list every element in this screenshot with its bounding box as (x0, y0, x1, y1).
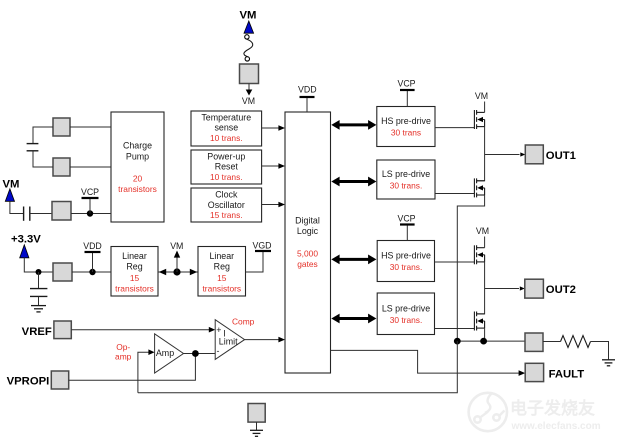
svg-text:FAULT: FAULT (549, 368, 585, 380)
wire pad GND to ground (256, 422, 258, 430)
node amp output junction (192, 350, 199, 357)
node 3.3V junction (36, 269, 42, 275)
wire M1 drain to VM (484, 102, 486, 113)
svg-text:HS pre-drive: HS pre-drive (381, 116, 431, 126)
svg-text:Logic: Logic (297, 226, 319, 236)
arrow into amp input (148, 349, 154, 355)
node VDD junction (89, 269, 95, 275)
wire feedback from sense node (138, 341, 457, 393)
power-up reset block (191, 150, 262, 184)
transistor M2 LS1 (474, 178, 484, 197)
svg-text:Linear: Linear (122, 251, 147, 261)
svg-text:20: 20 (133, 174, 143, 184)
wire OUT2 tee (485, 288, 519, 290)
wire comp output to digital logic (245, 339, 279, 341)
wire capacitor C2 to pad VCP (30, 213, 52, 215)
svg-text:VREF: VREF (22, 326, 52, 338)
HS pre-drive 1 block (377, 107, 435, 147)
svg-text:Temperature: Temperature (201, 112, 251, 122)
pad CP2 (53, 158, 70, 176)
svg-text:-: - (217, 346, 220, 356)
wire HS2 to M3 gate (435, 261, 475, 263)
svg-text:15: 15 (217, 273, 227, 283)
svg-text:www.elecfans.com: www.elecfans.com (511, 421, 601, 432)
transistor M4 LS2 (474, 312, 484, 331)
svg-text:VDD: VDD (298, 84, 317, 94)
wire M3 source column OUT2 (477, 262, 485, 314)
VGD rail symbol (246, 241, 272, 273)
svg-text:HS pre-drive: HS pre-drive (381, 251, 431, 261)
wire OUT1 tee (485, 154, 520, 156)
wire pad CP1 to charge pump (70, 126, 111, 128)
svg-text:15: 15 (130, 273, 140, 283)
watermark text (510, 398, 601, 432)
transistor M1 HS1 (474, 110, 484, 129)
svg-text:Amp: Amp (156, 348, 174, 358)
arrow into FAULT pad (519, 370, 526, 376)
svg-text:VCP: VCP (397, 78, 415, 88)
svg-text:VCP: VCP (81, 187, 99, 197)
svg-text:Oscillator: Oscillator (208, 200, 245, 210)
VM arrow label mid (170, 241, 183, 272)
squiggle wire (244, 39, 253, 56)
svg-text:Digital: Digital (295, 216, 320, 226)
svg-text:VPROPI: VPROPI (7, 375, 50, 387)
VM supply top-center (240, 10, 257, 34)
VDD rail symbol (83, 241, 102, 272)
wire M1 source column OUT1 (477, 127, 485, 181)
wire feedback into amp (138, 352, 149, 393)
pad VREF (54, 321, 71, 339)
pad CP1 (53, 118, 70, 136)
svg-text:Linear: Linear (209, 251, 234, 261)
label Op-amp (115, 342, 132, 362)
clock oscillator block (191, 188, 262, 222)
LS pre-drive 2 block (377, 293, 434, 335)
arrow into digital logic (278, 337, 285, 343)
wire LS2 to M4 gate (435, 328, 475, 330)
connector circle top (245, 35, 249, 39)
linear regulator U3 (198, 247, 246, 297)
VCP rail symbol (81, 187, 99, 214)
watermark logo (469, 393, 507, 431)
temperature sense block (191, 111, 262, 146)
thick arrow DL to HS1 (331, 120, 376, 130)
capacitor C2 (24, 207, 30, 221)
digital logic block (285, 112, 331, 373)
svg-text:gates: gates (297, 259, 318, 269)
svg-text:+: + (216, 325, 221, 335)
svg-text:VGD: VGD (252, 241, 271, 251)
pad VCP (52, 202, 71, 221)
svg-text:VM: VM (3, 179, 20, 191)
wire pad to resistor (543, 341, 561, 343)
comparator U5 (215, 320, 244, 360)
node VM junction mid (173, 268, 180, 275)
svg-text:VM: VM (475, 91, 488, 101)
connector circle bottom (245, 57, 249, 61)
VCP rail symbol predrive 2 (397, 213, 415, 240)
arrow temp sense to digital logic (262, 125, 285, 131)
svg-text:transistors: transistors (202, 284, 241, 294)
wire amp output to comp (184, 353, 216, 355)
svg-text:transistors: transistors (115, 284, 154, 294)
arrow into OUT1 pad (520, 152, 525, 156)
node sense junction B (480, 338, 487, 345)
wire LS1 to M2 gate (435, 193, 474, 195)
svg-text:LS pre-drive: LS pre-drive (382, 303, 430, 313)
VDD rail symbol digital logic (298, 84, 317, 112)
wire double arrow between linear regs (158, 269, 198, 276)
wire pad CP2 to charge pump (70, 166, 111, 168)
arrow into comp plus (209, 327, 215, 333)
svg-text:Clock: Clock (215, 189, 238, 199)
wire pad VDD to linear reg (72, 271, 111, 273)
wire M3 drain to VM (484, 237, 486, 248)
svg-text:VM: VM (476, 226, 489, 236)
pad SENSE (525, 333, 543, 351)
capacitor C1 (27, 144, 39, 151)
HS pre-drive 2 block (377, 241, 434, 282)
wire VREF to comparator (71, 329, 209, 331)
wire pad CP1 left to capacitor (33, 127, 53, 143)
LS pre-drive 1 block (377, 160, 435, 199)
svg-text:+3.3V: +3.3V (11, 234, 41, 246)
wire VPROPI to amp output node (69, 354, 196, 381)
VCP rail symbol predrive 1 (397, 78, 415, 106)
transistor M3 HS2 (474, 245, 484, 264)
svg-text:Comp: Comp (232, 316, 255, 326)
svg-text:30 trans.: 30 trans. (390, 181, 423, 191)
svg-text:VDD: VDD (83, 241, 102, 251)
wire M4 source to sense node (484, 328, 486, 341)
svg-text:sense: sense (214, 123, 238, 133)
svg-text:Pump: Pump (126, 152, 149, 162)
svg-text:Charge: Charge (123, 141, 152, 151)
svg-text:VM: VM (170, 241, 183, 251)
capacitor C3 (30, 272, 47, 305)
svg-text:Limit: Limit (219, 336, 238, 346)
ground bottom (250, 430, 263, 436)
svg-text:VM: VM (242, 96, 255, 106)
svg-text:Power-up: Power-up (207, 151, 245, 161)
wire fault from digital logic (331, 350, 519, 373)
pad OUT2 (525, 279, 544, 298)
svg-text:Reg: Reg (214, 262, 230, 272)
wire resistor to ground (591, 342, 609, 360)
pad OUT1 (525, 145, 543, 164)
svg-text:LS pre-drive: LS pre-drive (382, 169, 430, 179)
pad VM top (240, 64, 259, 84)
svg-text:VM: VM (240, 10, 257, 22)
wire M2 source down-left (457, 195, 484, 341)
resistor R1 (561, 336, 591, 348)
+3.3V supply (11, 234, 53, 273)
svg-text:10 trans.: 10 trans. (210, 172, 243, 182)
wire capacitor to pad CP2 (33, 151, 53, 167)
ground right (602, 360, 615, 366)
svg-text:Reset: Reset (215, 162, 239, 172)
thick arrow DL to LS2 (331, 314, 376, 324)
svg-text:30 trans: 30 trans (391, 128, 421, 138)
thick arrow DL to LS1 (331, 177, 376, 187)
svg-text:10 trans.: 10 trans. (210, 133, 243, 143)
arrow power-up reset to digital logic (262, 163, 285, 169)
svg-text:VCP: VCP (397, 213, 415, 223)
op-amp U4 (155, 334, 184, 373)
pad VPROPI (51, 371, 68, 389)
wire HS1 to M1 gate (435, 127, 474, 129)
wire sense rail (457, 340, 525, 342)
linear regulator U2 (111, 247, 158, 297)
svg-text:5,000: 5,000 (297, 249, 318, 259)
charge pump U1 (111, 112, 164, 222)
ground (31, 306, 46, 312)
thick arrow DL to HS2 (331, 255, 376, 265)
node VCP junction (87, 210, 93, 216)
svg-text:15 trans.: 15 trans. (210, 210, 243, 220)
pad GND (248, 404, 265, 423)
svg-text:OUT1: OUT1 (546, 150, 576, 162)
svg-text:Reg: Reg (126, 262, 142, 272)
VM supply top-left (3, 179, 24, 214)
wire pad VCP to charge pump (71, 213, 111, 215)
arrow into OUT2 pad (520, 286, 525, 290)
svg-text:Op-: Op- (116, 342, 130, 352)
arrow VM down (242, 84, 255, 106)
svg-text:电子发烧友: 电子发烧友 (510, 398, 595, 418)
svg-text:30 trans.: 30 trans. (390, 262, 423, 272)
pad VDD (53, 263, 72, 281)
svg-text:transistors: transistors (118, 184, 157, 194)
svg-text:30 trans.: 30 trans. (390, 315, 423, 325)
arrow clock oscillator to digital logic (262, 202, 285, 208)
node sense junction A (454, 338, 461, 345)
pad FAULT (525, 363, 543, 381)
svg-text:OUT2: OUT2 (546, 284, 576, 296)
svg-text:amp: amp (115, 351, 132, 361)
